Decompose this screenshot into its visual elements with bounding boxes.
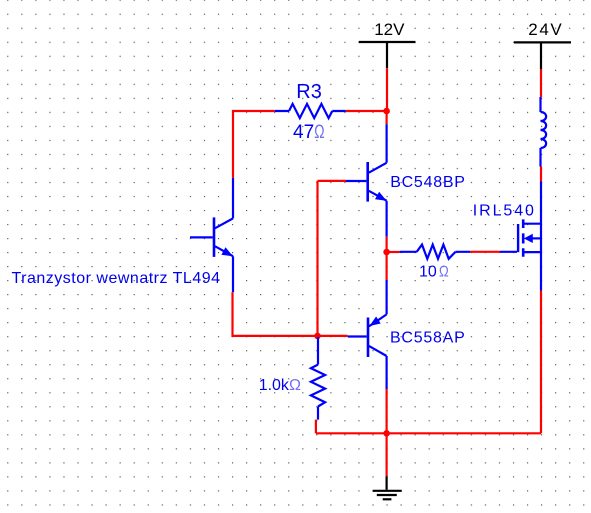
node A junction xyxy=(383,108,390,115)
Q3 emitter arrow xyxy=(371,317,380,325)
resistor 10 ohm xyxy=(400,245,471,259)
wire R3 left to Q1 collector xyxy=(233,111,275,178)
node C junction xyxy=(383,249,390,256)
svg-text:1.0kΩ: 1.0kΩ xyxy=(259,377,301,394)
wire bottom rail xyxy=(316,291,541,434)
Q1 emitter arrow xyxy=(222,248,232,256)
transistor Q3 BC558AP xyxy=(348,280,387,389)
wire Q2 emitter to node C xyxy=(386,237,388,252)
transistor Q1 (TL494 internal) xyxy=(190,178,233,293)
mosfet M1 IRL540 xyxy=(500,182,541,291)
svg-text:R3: R3 xyxy=(296,81,322,103)
wire Q3 collector red xyxy=(386,389,388,433)
wire Q1 emitter to node B xyxy=(233,292,318,336)
resistor 1.0k xyxy=(311,342,325,420)
M1 body arrow xyxy=(525,235,533,243)
wire node B to Q2 base xyxy=(318,335,348,337)
Q2 emitter arrow xyxy=(376,193,386,201)
ground xyxy=(373,476,402,499)
power symbol 12V xyxy=(359,42,416,68)
svg-text:47Ω: 47Ω xyxy=(293,122,325,143)
wire node B down to R 1.0k xyxy=(317,337,319,342)
wire R3 right to node A xyxy=(346,110,387,112)
wire 24V to L1 xyxy=(540,69,542,97)
wire 12V to node A xyxy=(386,68,388,111)
svg-text:BC548BP: BC548BP xyxy=(390,174,466,191)
svg-text:12V: 12V xyxy=(374,20,405,39)
resistor R3 xyxy=(275,104,346,118)
wire L1 to M1 drain xyxy=(540,167,542,182)
svg-text:IRL540: IRL540 xyxy=(473,203,536,220)
wire node B up to Q2 base rail xyxy=(318,181,347,336)
svg-text:BC558AP: BC558AP xyxy=(390,330,466,347)
node B junction xyxy=(314,333,321,340)
wire node C down to Q3 emitter xyxy=(386,252,388,280)
inductor L1 xyxy=(541,97,547,167)
svg-text:24V: 24V xyxy=(528,20,563,39)
wire 10ohm to M1 gate xyxy=(470,251,500,253)
svg-text:10Ω: 10Ω xyxy=(419,264,449,281)
svg-text:Tranzystor wewnatrz TL494: Tranzystor wewnatrz TL494 xyxy=(12,270,221,287)
wire node D to ground xyxy=(386,433,388,476)
power symbol 24V xyxy=(514,42,571,69)
node D junction xyxy=(383,430,390,437)
wire node C to R 10ohm xyxy=(387,251,400,253)
wire node A red stub down xyxy=(386,111,388,124)
transistor Q2 BC548BP xyxy=(346,124,387,237)
